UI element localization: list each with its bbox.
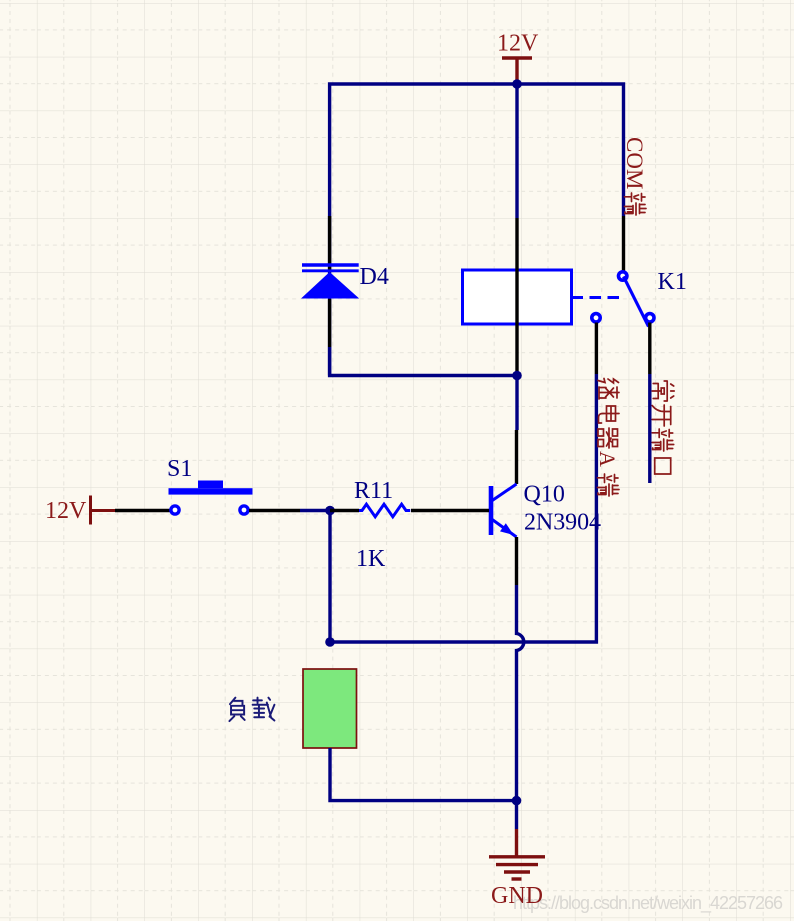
junction at ground rail: [512, 796, 522, 806]
svg-text:https://blog.csdn.net/weixin_4: https://blog.csdn.net/weixin_42257266: [513, 893, 783, 914]
wire: D4 bottom to relay bottom junction: [330, 347, 517, 376]
继电器A端 label (vertical): [595, 379, 620, 497]
wire: down to GND: [515, 801, 518, 829]
switch S1 body: [169, 481, 253, 515]
D4 bottom pin black: [328, 299, 331, 347]
COM pin black to K1: [622, 216, 625, 271]
K1 middle contact circle: [592, 314, 600, 322]
svg-text:Q10: Q10: [524, 482, 565, 508]
wire: node A down to lower rail: [328, 511, 331, 643]
Q10 collector pin black: [515, 430, 518, 484]
svg-text:GND: GND: [491, 883, 543, 909]
relay K1 dashed actuation line: [572, 296, 625, 299]
wire: emitter to ground with hop over lower rail: [517, 585, 524, 801]
wire: relay coil branch vertical (navy part above relay): [515, 84, 518, 218]
负载 label: [229, 698, 274, 721]
wire: load bottom to ground rail: [330, 748, 517, 801]
K1 right contact circle: [646, 314, 654, 322]
junction below relay: [512, 371, 522, 381]
svg-text:K1: K1: [658, 269, 687, 295]
relay coil (K1 coil) rectangle: [463, 270, 572, 324]
diode D4 body: [301, 265, 359, 299]
junction node A: [325, 506, 335, 516]
wire: NO terminal stub: [648, 374, 651, 483]
svg-text:1K: 1K: [356, 546, 386, 572]
resistor R11 zigzag: [359, 504, 410, 517]
ground symbol: [489, 829, 545, 879]
R11 right pin / base wire black: [411, 509, 489, 512]
relay coil pin (black, through body): [515, 218, 518, 376]
wire: S1 to node A: [300, 509, 330, 512]
svg-text:2N3904: 2N3904: [524, 510, 601, 536]
junction at lower rail: [325, 637, 335, 647]
svg-text:R11: R11: [354, 478, 393, 504]
junction at 12V rail: [512, 79, 522, 89]
wire: D4 top pin black: [328, 216, 331, 272]
S1 left pin black: [115, 509, 170, 512]
load box 负载: [303, 669, 357, 748]
Q10 emitter pin black: [515, 537, 518, 585]
K1 middle pin black: [595, 323, 598, 375]
transistor Q10 body: [491, 484, 517, 537]
svg-text:A: A: [595, 451, 620, 467]
svg-text:12V: 12V: [497, 31, 539, 57]
K1 top contact circle: [619, 272, 627, 280]
COM端 label (vertical): [622, 137, 647, 215]
K1 right pin black: [648, 323, 651, 375]
svg-text:COM: COM: [622, 137, 647, 189]
wire: collector node vertical: [515, 376, 518, 431]
svg-text:D4: D4: [360, 264, 389, 290]
svg-text:12V: 12V: [45, 498, 87, 524]
power port 12V (top) symbol: [502, 58, 532, 82]
K1 blade: [624, 277, 649, 327]
wire: relay A terminal down and across: [330, 374, 596, 642]
svg-text:S1: S1: [167, 456, 192, 482]
wire: top rail from D4 corner to COM corner: [330, 84, 624, 376]
常开端口 label (vertical): [652, 381, 674, 474]
R11 left pin black: [330, 509, 359, 512]
power port 12V (left) symbol: [91, 496, 116, 525]
S1 right pin black: [249, 509, 300, 512]
